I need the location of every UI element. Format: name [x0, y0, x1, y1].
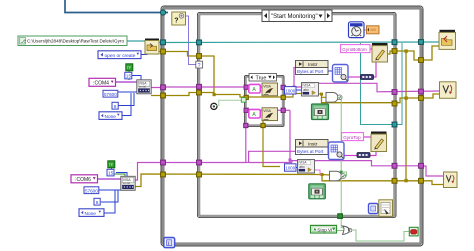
- wire: gyrobottom ref to pen 1: [370, 48, 372, 50]
- open/create/replace file vi: [145, 39, 159, 55]
- tunnel: file refnum case left: [197, 40, 202, 45]
- wire: TF2 to config2: [112, 168, 126, 178]
- junction: visa bottom merge: [289, 159, 292, 162]
- boolean indicator small: [369, 204, 379, 214]
- svg-text:?: ?: [198, 63, 201, 69]
- numeric constant 8 (2): [94, 198, 100, 206]
- wire: timeout2 to config2: [116, 173, 127, 178]
- tunnel: visa true case right lower: [281, 108, 285, 112]
- junction dots: [213, 49, 408, 182]
- svg-text:57600: 57600: [104, 92, 117, 97]
- wire: byte count to read1: [296, 89, 302, 91]
- tunnel: visa2 loop left: [161, 160, 166, 165]
- junction: boolean at compare2: [340, 171, 343, 174]
- wire: visa branch up to property node 1: [294, 68, 296, 88]
- numeric constant 57600 (2): [84, 187, 99, 194]
- tunnel: queue refnum on loop (circle): [160, 10, 165, 15]
- wire: merged error to true case: [214, 95, 245, 98]
- svg-text:TF: TF: [109, 163, 114, 167]
- tunnel: file refnum case right: [392, 40, 397, 45]
- inner case selector terminal: [241, 98, 246, 103]
- wire: gyrotop ref to pen 2: [364, 136, 372, 138]
- visa property node 1: Instr / Bytes at Port: [296, 61, 329, 75]
- string constant A2: [249, 109, 260, 118]
- junction: error bottom: [321, 173, 324, 176]
- tunnel: error2 loop left: [161, 172, 166, 177]
- property node pen 2: [371, 132, 387, 152]
- tunnel: visa1 case left: [197, 84, 202, 89]
- wire: error inside true case: [247, 96, 283, 98]
- tunnel: visa1 loop left: [161, 85, 166, 90]
- visa configure serial port vi 1: [137, 80, 151, 94]
- string constant A1: [249, 84, 260, 93]
- svg-text:Bytes at Port: Bytes at Port: [297, 69, 324, 74]
- tunnel: error true case right: [281, 95, 285, 99]
- tunnel: error2 case right: [392, 178, 397, 183]
- tunnel: error1 loop right: [419, 96, 424, 101]
- tunnel: visa true case right top: [281, 85, 285, 89]
- TUNNELS: [160, 10, 423, 219]
- visa close vi 1: [440, 82, 457, 99]
- wire: concat into pen 2: [370, 152, 376, 156]
- svg-text:15: 15: [126, 74, 132, 80]
- wire: queue refnum from top edge: [65, 0, 168, 13]
- wire: file error out of open vi: [157, 52, 214, 95]
- dequeue element vi: [172, 12, 186, 25]
- wire: visa COM6 up and right into case: [135, 163, 292, 181]
- wire: visa resource COM4 through loop to true case: [151, 86, 245, 89]
- svg-text:serial: serial: [123, 181, 131, 185]
- wire: error to read1: [285, 94, 302, 98]
- tunnel: visa2 case right: [392, 163, 397, 168]
- wire: visa resource out of read1 to close tunnel: [318, 83, 440, 92]
- svg-text:8: 8: [96, 200, 99, 206]
- boolean true constant 1: [126, 64, 133, 71]
- wire: baud2 to config2: [99, 189, 122, 191]
- svg-text:1000: 1000: [285, 88, 295, 93]
- tunnel: file error loop left: [161, 49, 166, 54]
- wire: COM6 resource to config vi 2: [97, 178, 121, 180]
- svg-text:VISA: VISA: [263, 84, 271, 88]
- inner case structure True: [245, 76, 285, 127]
- wire: property node 2 to string function 2: [327, 147, 328, 149]
- svg-text:1000: 1000: [285, 166, 295, 171]
- numeric constant 1000 (2): [285, 164, 297, 171]
- wire: visa write1 out to visa read1: [285, 86, 302, 88]
- svg-text:"Start Monitoring": "Start Monitoring": [271, 14, 318, 20]
- case structure Start Monitoring: [198, 13, 397, 218]
- wire: byte count to read2: [296, 167, 298, 169]
- svg-text:Bytes at Port: Bytes at Port: [297, 149, 324, 154]
- wire: file refnum across loop and case: [158, 41, 439, 44]
- tunnel: error true case bottom: [261, 123, 265, 127]
- enum constant None (1): [99, 112, 122, 120]
- svg-text:TF: TF: [127, 66, 132, 70]
- svg-text:Stop VI: Stop VI: [317, 227, 332, 232]
- tunnel: error2 loop right: [419, 178, 424, 183]
- wire: visa inside true case to write2: [247, 109, 262, 111]
- visa configure serial port vi 2: [121, 176, 135, 190]
- comparison gate 1: [326, 93, 342, 103]
- svg-text:C:\Users\jth2848\Desktop\RawTe: C:\Users\jth2848\Desktop\RawTest Delete\…: [27, 39, 124, 44]
- wire: error jog to loop tunnel top half: [396, 98, 421, 103]
- visa read vi 2: [298, 160, 315, 174]
- control reference GyroBottom: [341, 45, 371, 53]
- wire: true case visa down to property node 2: [245, 126, 247, 163]
- wire: wait ms constant: [364, 29, 367, 31]
- wire: databits2 to config2: [101, 191, 118, 203]
- not-empty check circle: [211, 103, 217, 109]
- numeric constant 15 (2): [107, 169, 114, 176]
- tunnel: visa true case bottom: [244, 123, 248, 127]
- svg-text:abc: abc: [303, 88, 309, 92]
- enum constant None (2): [79, 209, 104, 217]
- format into file vi: [379, 200, 393, 217]
- concatenate strings 1: [361, 75, 374, 80]
- svg-text:VISA: VISA: [263, 109, 271, 113]
- wire: or gate to loop stop terminal: [353, 230, 410, 241]
- junction: error trunk top: [404, 49, 407, 52]
- wire: visa COM6 jog into read2: [292, 161, 299, 163]
- wire: databits1 to config1: [118, 93, 134, 106]
- wire: error to visa close 1: [423, 94, 440, 98]
- tunnel: file refnum case right lower: [392, 122, 397, 127]
- wire: baud1 to config1: [118, 91, 138, 93]
- wire: parity1 to config1: [120, 93, 131, 116]
- write file express 1: [312, 104, 329, 120]
- wire: stop vi boolean to or gate: [337, 230, 344, 232]
- string subset vi 1: [333, 65, 349, 83]
- tunnel: error true case left: [244, 95, 248, 99]
- junction: error trunk mid: [404, 96, 407, 99]
- control reference GyroTop: [342, 133, 364, 141]
- svg-text:GyroTop: GyroTop: [343, 135, 361, 140]
- case selector label True: [249, 74, 277, 82]
- wait ms vi: [349, 22, 365, 38]
- wire: error bottom half to visa close 2: [322, 174, 330, 177]
- svg-text:None: None: [85, 211, 97, 217]
- tunnel: error1 case right: [392, 101, 397, 106]
- wire: file error top right to close file: [386, 51, 421, 60]
- wire: true case error down joins bottom error: [263, 126, 280, 167]
- tunnel: file error case right: [392, 49, 397, 54]
- or gate: [343, 226, 352, 234]
- wire: COM4 resource to config vi: [114, 81, 137, 83]
- svg-text:57600: 57600: [85, 188, 98, 193]
- svg-text:COM6: COM6: [77, 177, 92, 183]
- numeric constant 1000 (1): [285, 87, 297, 94]
- svg-text:serial: serial: [139, 85, 147, 89]
- tunnel: visa2 loop right: [419, 163, 424, 168]
- comparison gate 2: [330, 171, 346, 181]
- tunnel: visa1 case right: [392, 90, 397, 95]
- loop stop terminal: [409, 227, 418, 236]
- wire: error trunk vertical right side: [405, 51, 407, 181]
- wire: boolean from compare2 joins trunk: [341, 172, 346, 176]
- junction: visa branch to pn1: [293, 86, 296, 89]
- wire: write2 visa down to bottom half: [289, 110, 291, 162]
- svg-text:15: 15: [108, 171, 114, 177]
- tunnel: visa true case left lower: [244, 108, 248, 112]
- concatenate strings 2: [357, 153, 370, 158]
- wire: read1 error into compare 1: [318, 94, 326, 97]
- svg-text:A: A: [252, 112, 256, 118]
- visa close vi 2: [444, 172, 458, 188]
- wire: file path constant to open vi: [127, 40, 145, 42]
- svg-text:GyroBottom: GyroBottom: [342, 47, 367, 52]
- tunnel: boolean case bottom: [338, 214, 343, 219]
- numeric constant 15 (1): [125, 72, 132, 79]
- wire: visa out of read2 to close 2: [313, 161, 421, 166]
- wire: file refnum return up between case and loop: [397, 43, 402, 125]
- svg-text:?: ?: [174, 18, 178, 25]
- tunnel: file error case left: [197, 54, 202, 59]
- junction: error trunk bottom: [404, 179, 407, 182]
- tunnel: error1 loop left: [161, 93, 166, 98]
- tunnel: visa true case left top: [244, 85, 248, 89]
- svg-text:A: A: [252, 87, 256, 93]
- wire: write2 error down to bottom tunnel: [262, 121, 264, 126]
- wire: COM6 error into case: [135, 174, 322, 187]
- tunnel: visa2 case left: [197, 160, 202, 165]
- visa resource constant COM6: [71, 175, 98, 183]
- svg-text:⎇: ⎇: [20, 39, 26, 45]
- svg-text:abc: abc: [299, 165, 305, 169]
- WIRES_BELOW: [65, 0, 444, 241]
- tunnel: visa1 loop right: [419, 89, 424, 94]
- numeric constant 8 (1): [112, 102, 118, 110]
- wire: write2 visa out to right tunnel: [278, 109, 291, 111]
- write file express 2: [309, 184, 326, 199]
- wire: timeout1 to config1: [131, 76, 141, 81]
- wire: parity2 to config2: [103, 191, 115, 214]
- wire: file refnum branch down to write nodes: [361, 43, 394, 125]
- close file vi: [439, 30, 456, 50]
- tunnel: file error loop right: [419, 58, 424, 63]
- visa resource constant COM4: [89, 78, 116, 86]
- boolean control Stop VI: [311, 225, 337, 233]
- wire: COM4 error through loop: [151, 93, 214, 96]
- case selector terminal: [196, 61, 203, 69]
- wire: concat string into property pen 1: [373, 62, 376, 77]
- visa read vi 1: [302, 83, 319, 97]
- wire: error out of read1 along bottom: [322, 97, 394, 103]
- boolean true constant 2: [108, 161, 115, 168]
- wire: boolean from compare1 down: [341, 97, 343, 227]
- numeric constant wait time: [367, 26, 380, 34]
- svg-text:8: 8: [114, 104, 117, 110]
- case selector label Start Monitoring: [262, 10, 332, 22]
- visa write vi 1: [262, 83, 278, 96]
- wire: property node 1 to string function: [328, 70, 333, 72]
- svg-text:open or create: open or create: [105, 53, 136, 59]
- string subset vi 2: [329, 142, 345, 160]
- tunnel: file refnum loop left: [161, 40, 166, 45]
- while loop: [161, 6, 423, 246]
- visa write vi 2: [262, 108, 278, 121]
- tunnel: error1 case left: [197, 90, 202, 95]
- tunnel: error2 case left: [197, 172, 202, 177]
- svg-text:True: True: [256, 76, 267, 82]
- enum constant open or create: [98, 51, 141, 59]
- wire: open mode enum: [141, 52, 147, 55]
- numeric constant 57600 (1): [103, 90, 118, 97]
- tunnel: file refnum loop right: [419, 40, 424, 45]
- wire: visa COM4 inside true case to write1: [247, 86, 262, 88]
- visa property node 2: Instr / Bytes at Port: [296, 140, 329, 155]
- loop iteration terminal i: [164, 238, 175, 248]
- property node pen 1: [372, 43, 388, 62]
- svg-text:None: None: [105, 114, 117, 120]
- wire: read2 string to compare 2: [314, 170, 324, 175]
- wire: boolean from check circle to inner case selector: [217, 100, 242, 105]
- path constant C:\Users\jth2848\Desktop\RawTest Delete\Gyro: [18, 36, 127, 46]
- wire: selector string to case: [184, 16, 198, 65]
- junction: error merge left: [213, 93, 216, 96]
- svg-text:COM4: COM4: [95, 80, 110, 86]
- wire: TF1 to config1: [128, 70, 130, 80]
